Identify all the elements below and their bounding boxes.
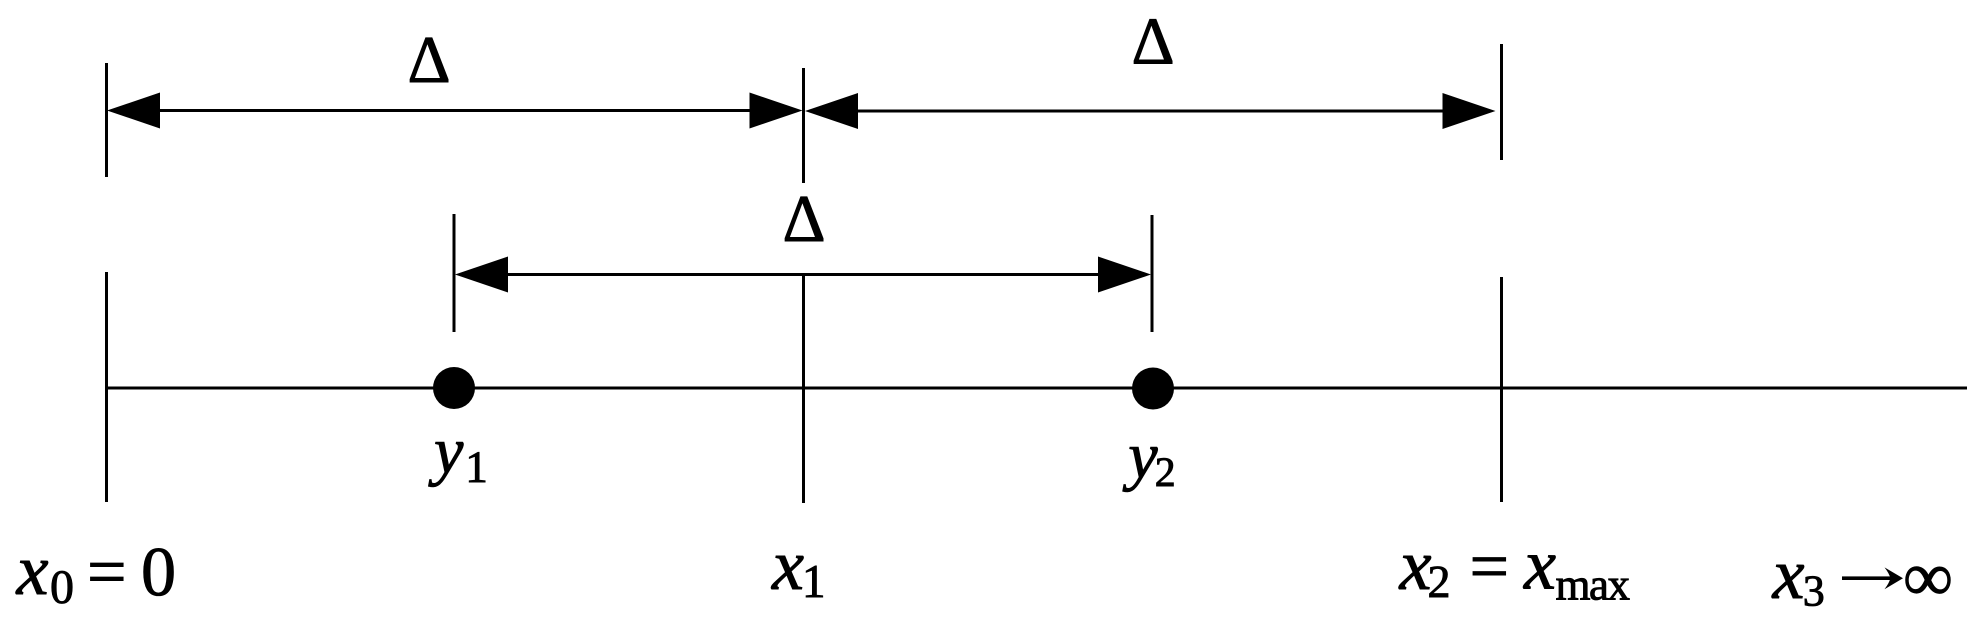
tick x0 upper segment (105, 63, 108, 177)
svg-text:y: y (1122, 419, 1158, 492)
tick x1 lower segment (802, 274, 805, 503)
arrow shaft delta right (x1 to x2) (820, 110, 1480, 113)
tick x2 upper segment (1500, 44, 1503, 160)
arrowhead right of delta-middle arrow (1098, 257, 1151, 293)
svg-text:x: x (1523, 524, 1556, 604)
svg-text:Δ: Δ (407, 23, 450, 97)
arrow shaft delta left (x0 to x1) (120, 109, 790, 112)
tick y1 (453, 214, 456, 332)
point y2 dot (1132, 368, 1174, 410)
arrowhead left of delta-right arrow (805, 93, 858, 129)
svg-text:y: y (428, 414, 464, 487)
point y1 dot (433, 367, 475, 409)
arrowhead left of delta-middle arrow (455, 257, 508, 293)
svg-text:x: x (771, 525, 804, 605)
svg-text:0: 0 (141, 534, 176, 611)
tick y2 (1151, 215, 1154, 332)
arrowhead right of delta-right arrow (1443, 93, 1496, 129)
svg-text:x: x (1771, 534, 1804, 614)
arrow to infinity shaft (1842, 576, 1893, 580)
arrow shaft delta middle (y1 to y2) (470, 273, 1135, 276)
arrow to infinity head (1885, 567, 1904, 589)
arrowhead right of delta-left arrow (750, 93, 803, 129)
svg-text:Δ: Δ (782, 182, 825, 256)
tick x1 upper segment (802, 68, 805, 183)
svg-text:=: = (1469, 529, 1509, 606)
svg-text:∞: ∞ (1903, 539, 1953, 616)
svg-text:x: x (15, 530, 48, 610)
svg-text:Δ: Δ (1131, 4, 1174, 78)
number line axis (106, 387, 1967, 390)
arrowhead left of delta-left arrow (107, 93, 160, 129)
svg-text:=: = (87, 534, 127, 611)
svg-text:x: x (1398, 525, 1431, 605)
tick x0 lower segment (105, 272, 108, 502)
tick x2 lower segment (1500, 277, 1503, 502)
